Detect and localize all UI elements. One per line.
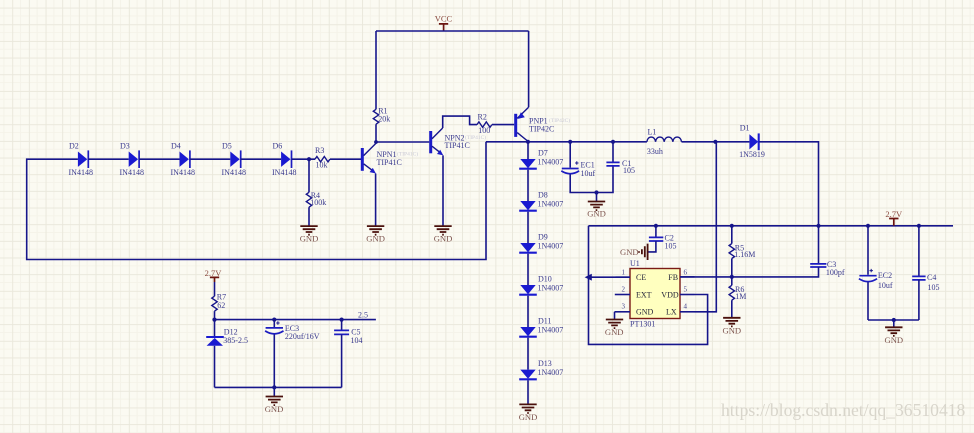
wire D12 top — [214, 320, 216, 337]
wire D9-D10 — [527, 254, 529, 285]
pin 6 FB — [668, 268, 694, 282]
svg-text:D5: D5 — [222, 142, 232, 151]
node R5 junction — [730, 224, 734, 228]
svg-text:PT1301: PT1301 — [630, 319, 655, 328]
node EC3 bottom junction — [272, 385, 276, 389]
inductor L1 — [647, 127, 682, 155]
svg-text:VCC: VCC — [435, 14, 453, 24]
svg-text:105: 105 — [623, 166, 635, 175]
svg-text:10k: 10k — [316, 161, 328, 170]
svg-text:10uf: 10uf — [878, 281, 893, 290]
svg-text:https://blog.csdn.net/qq_36510: https://blog.csdn.net/qq_36510418 — [721, 400, 966, 420]
diode D9 — [519, 233, 563, 253]
node C5 junction — [340, 318, 344, 322]
node PNP1 collector junction — [526, 140, 530, 144]
wire FB to R6 — [731, 277, 733, 285]
svg-text:10uf: 10uf — [581, 169, 596, 178]
svg-text:20k: 20k — [378, 115, 390, 124]
node R7/D12 junction — [212, 318, 216, 322]
svg-text:IN4148: IN4148 — [120, 168, 144, 177]
svg-text:100: 100 — [478, 126, 490, 135]
wire R6 to ground — [731, 300, 733, 317]
svg-text:33uh: 33uh — [647, 147, 663, 156]
wire R1 to NPN1 collector — [375, 124, 377, 142]
capacitor EC3 220uf/16V — [265, 320, 320, 388]
transistor Q NPN2 TIP41C — [431, 128, 487, 155]
svg-text:IN4148: IN4148 — [171, 168, 195, 177]
wire NPN1 emitter to ground — [375, 174, 377, 226]
svg-text:GND: GND — [519, 412, 538, 422]
svg-text:D6: D6 — [273, 142, 283, 151]
capacitor EC2 10uf — [859, 226, 893, 320]
diode D5 — [222, 142, 246, 177]
wire NPN2 collector to R2 — [443, 116, 477, 128]
diode D7 — [519, 149, 563, 169]
diode D11 — [519, 317, 563, 337]
svg-text:IN4148: IN4148 — [222, 168, 246, 177]
wire D8-D9 — [527, 212, 529, 243]
svg-text:1M: 1M — [735, 292, 746, 301]
diode D8 — [519, 191, 563, 211]
wire VCC rail — [376, 30, 529, 32]
node C2 junction — [654, 224, 658, 228]
svg-text:3: 3 — [622, 303, 626, 311]
svg-text:D7: D7 — [538, 149, 548, 158]
wire pin3 to ground — [614, 312, 616, 320]
diode D3 — [120, 142, 144, 177]
resistor R7 — [212, 292, 226, 311]
svg-text:C4: C4 — [927, 273, 936, 282]
op-amp U1 PT1301 body — [630, 259, 680, 328]
svg-text:385-2.5: 385-2.5 — [223, 336, 248, 345]
svg-text:1.16M: 1.16M — [734, 250, 755, 259]
svg-text:R2: R2 — [478, 113, 487, 122]
svg-text:R3: R3 — [315, 146, 324, 155]
wire output rail 2.7V — [589, 225, 954, 227]
svg-text:GND: GND — [636, 307, 654, 316]
wire NPN1 collector to NPN2 base — [376, 141, 429, 143]
svg-text:2.7V: 2.7V — [885, 209, 903, 219]
svg-text:TIP42C: TIP42C — [529, 125, 554, 134]
svg-text:(TIP41C): (TIP41C) — [397, 151, 418, 158]
wire R3 to NPN1 base — [330, 158, 361, 160]
svg-text:LX: LX — [666, 307, 677, 316]
svg-text:100k: 100k — [310, 198, 326, 207]
ground under pin 3 — [605, 320, 624, 338]
capacitor C4 105 — [912, 226, 939, 320]
svg-text:CE: CE — [636, 273, 646, 282]
svg-text:1N4007: 1N4007 — [538, 241, 564, 250]
wire D5-D6 — [241, 158, 281, 160]
node FB junction — [730, 275, 734, 279]
svg-text:D1: D1 — [740, 123, 750, 132]
node CE arrow — [585, 274, 592, 281]
svg-text:GND: GND — [265, 404, 284, 414]
svg-text:D11: D11 — [538, 317, 551, 326]
node C3 rail junction — [816, 224, 820, 228]
diode D10 — [519, 275, 563, 295]
wire rail to R5 — [731, 226, 733, 244]
node R3/R4 junction — [307, 157, 311, 161]
wire 2.7V to R7 — [214, 282, 216, 296]
svg-text:220uf/16V: 220uf/16V — [285, 332, 320, 341]
svg-text:IN4148: IN4148 — [272, 168, 296, 177]
svg-text:100pf: 100pf — [826, 268, 845, 277]
svg-text:5: 5 — [684, 286, 688, 294]
svg-text:4: 4 — [684, 303, 688, 311]
svg-text:(TIP42C): (TIP42C) — [549, 117, 570, 124]
resistor R4 — [306, 191, 326, 207]
power VCC — [435, 14, 453, 31]
wire D11-D13 — [527, 338, 529, 370]
wire LX to switch node — [695, 142, 717, 312]
svg-text:1N4007: 1N4007 — [538, 199, 564, 208]
svg-text:D3: D3 — [120, 142, 130, 151]
svg-text:1: 1 — [622, 268, 626, 276]
wire D7 chain top — [527, 142, 529, 159]
capacitor C2 105 — [648, 226, 677, 252]
capacitor C3 100pf — [695, 226, 845, 277]
diode D4 — [171, 142, 195, 177]
node R1/collector junction — [374, 140, 378, 144]
transistor Q PNP1 TIP42C — [516, 107, 571, 141]
pin 5 VDD — [661, 286, 694, 300]
wire R5 to FB — [731, 259, 733, 277]
wire EC2/C4 bottom — [868, 319, 919, 321]
wire VDD feedback loop — [589, 226, 708, 345]
resistor R3 — [315, 146, 330, 169]
wire D12 bottom — [214, 346, 216, 388]
svg-text:GND: GND — [722, 326, 741, 336]
svg-text:D2: D2 — [69, 142, 79, 151]
wire D10-D11 — [527, 296, 529, 327]
wire CE to left net — [589, 276, 630, 278]
diode D12 385-2.5 (zener) — [206, 327, 248, 345]
svg-text:GND: GND — [366, 234, 385, 244]
power 2.7V left — [205, 268, 223, 282]
wire D3-D4 — [139, 158, 179, 160]
wire 2.5 net — [215, 319, 376, 321]
svg-text:VDD: VDD — [661, 290, 679, 299]
svg-text:1N4007: 1N4007 — [538, 368, 564, 377]
wire to right ground — [893, 320, 895, 327]
svg-text:L1: L1 — [648, 127, 657, 136]
node bottom ground junction — [892, 318, 896, 322]
wire EC3 ground stub — [273, 387, 275, 396]
transistor Q NPN1 TIP41C — [362, 143, 418, 173]
diode D1 1N5819 — [739, 123, 765, 159]
wire to mid ground — [596, 193, 598, 202]
svg-text:6: 6 — [684, 268, 688, 276]
ground sideways at C2 — [620, 244, 648, 260]
diode D13 — [519, 359, 563, 379]
diode D2 — [69, 142, 93, 177]
svg-text:D4: D4 — [171, 142, 181, 151]
power 2.7V right — [885, 209, 903, 226]
wire R4 branch — [308, 159, 310, 192]
resistor R2 — [477, 113, 492, 136]
wire R2 to PNP1 base — [492, 124, 514, 126]
wire D13 to ground — [527, 380, 529, 404]
svg-text:1N5819: 1N5819 — [739, 150, 765, 159]
svg-text:D8: D8 — [538, 191, 548, 200]
svg-text:TIP41C: TIP41C — [377, 158, 402, 167]
node C4 junction — [917, 224, 921, 228]
wire PNP1 emitter to VCC — [528, 31, 530, 107]
svg-text:EXT: EXT — [636, 290, 652, 299]
wire D7-D8 — [527, 170, 529, 201]
wire VCC to R1 — [375, 31, 377, 109]
ground under EC2/C4 — [884, 327, 903, 345]
svg-text:GND: GND — [620, 247, 639, 257]
wire D2-D3 — [88, 158, 128, 160]
wire FB pin6 — [680, 276, 695, 278]
ground under NPN2 — [434, 226, 453, 244]
capacitor C1 105 — [606, 142, 635, 175]
svg-text:D10: D10 — [538, 275, 552, 284]
svg-text:R7: R7 — [217, 292, 226, 301]
wire R7 to 2.5 net — [214, 311, 216, 320]
ground under R4 — [300, 226, 319, 244]
svg-text:2.7V: 2.7V — [205, 268, 223, 278]
svg-text:U1: U1 — [630, 259, 640, 268]
svg-text:FB: FB — [668, 273, 678, 282]
pin 3 GND — [615, 303, 654, 317]
node EC1 junction — [568, 140, 572, 144]
svg-text:C5: C5 — [351, 327, 360, 336]
svg-text:2: 2 — [622, 286, 626, 294]
wire D1 to output corner — [759, 142, 818, 226]
svg-text:GND: GND — [300, 234, 319, 244]
node LX junction — [713, 140, 717, 144]
wire bottom-left ground rail — [215, 386, 342, 388]
ground under EC3 — [265, 397, 284, 414]
svg-text:IN4148: IN4148 — [69, 168, 93, 177]
capacitor EC1 10uf — [561, 142, 613, 193]
svg-text:1N4007: 1N4007 — [538, 283, 564, 292]
svg-text:GND: GND — [434, 234, 453, 244]
pin 2 EXT — [615, 286, 652, 300]
svg-text:GND: GND — [884, 335, 903, 345]
wire D4-D5 — [190, 158, 230, 160]
svg-text:EC2: EC2 — [878, 271, 892, 280]
svg-text:TIP41C: TIP41C — [445, 141, 470, 150]
wire D6 to R3 — [292, 158, 316, 160]
node EC1/C1 ground junction — [594, 190, 598, 194]
node C1 junction — [611, 140, 615, 144]
svg-text:D9: D9 — [538, 233, 548, 242]
resistor R5 — [729, 243, 755, 259]
svg-text:GND: GND — [605, 327, 624, 337]
svg-text:GND: GND — [587, 209, 606, 219]
node EC2 junction — [866, 224, 870, 228]
svg-text:1N4007: 1N4007 — [538, 325, 564, 334]
svg-text:105: 105 — [928, 283, 940, 292]
wire NPN2 emitter to ground — [442, 155, 444, 226]
resistor R6 — [729, 285, 746, 301]
capacitor C5 104 — [334, 320, 362, 388]
svg-text:105: 105 — [665, 241, 677, 250]
pin 1 CE — [616, 268, 647, 282]
ground under diode chain — [519, 404, 538, 422]
node EC3 top junction — [272, 318, 276, 322]
wire R4 to ground — [308, 207, 310, 226]
resistor R1 — [373, 107, 390, 125]
svg-text:104: 104 — [351, 336, 363, 345]
pin 4 LX — [666, 303, 695, 317]
svg-text:62: 62 — [217, 301, 225, 310]
svg-text:1N4007: 1N4007 — [538, 157, 564, 166]
wire L1 to D1 — [682, 141, 750, 143]
ground under R6 — [722, 318, 741, 336]
wire diode row left loop — [27, 142, 486, 260]
svg-text:2.5: 2.5 — [358, 311, 368, 320]
svg-text:D13: D13 — [538, 359, 552, 368]
ground under NPN1 — [366, 226, 385, 244]
ground under EC1/C1 — [587, 202, 606, 219]
diode D6 — [272, 142, 296, 177]
wire output mid rail — [486, 141, 647, 143]
